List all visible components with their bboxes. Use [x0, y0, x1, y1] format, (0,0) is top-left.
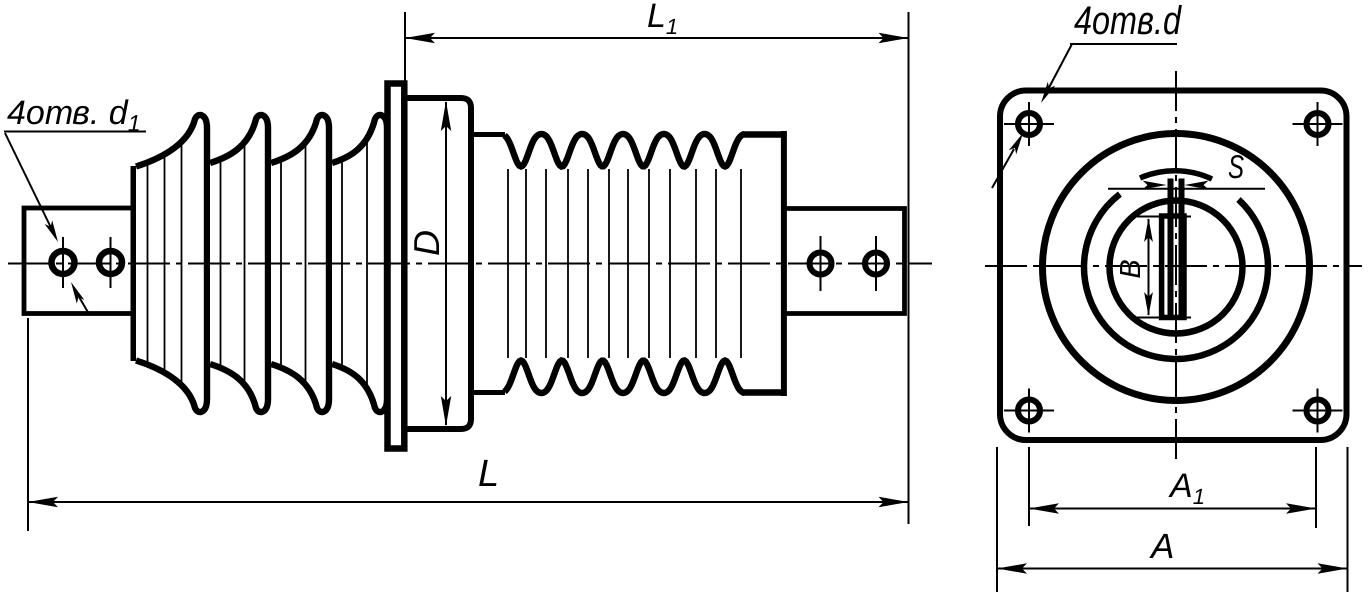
right tab hole 2 — [865, 253, 887, 275]
A1 extension left — [1028, 447, 1030, 526]
terminal slot outline — [1162, 216, 1184, 318]
arrowhead A left — [997, 563, 1027, 573]
corner hole 1 — [1018, 113, 1040, 135]
cylindrical body — [404, 98, 471, 429]
corrugated body bottom profile — [505, 361, 783, 394]
arrowhead L1 right — [879, 33, 909, 43]
flange outer circle — [1043, 134, 1310, 401]
corrugated body top profile — [505, 134, 783, 167]
neck ledge bottom — [471, 390, 505, 395]
svg-text:D: D — [406, 230, 447, 256]
left tab hole 2 — [99, 251, 122, 274]
left terminal tab — [24, 208, 133, 314]
arrowhead L1 left — [405, 33, 435, 43]
centerline left view — [8, 263, 932, 265]
arrowhead D bottom — [441, 396, 451, 426]
svg-text:S: S — [1228, 148, 1244, 185]
arrowhead d leader upper — [1041, 82, 1055, 103]
insulator shed 1 — [136, 115, 207, 412]
underline of label 4otv d — [1070, 43, 1177, 45]
right terminal tab — [786, 209, 905, 314]
A dimension line — [997, 568, 1348, 570]
middle circle (gap at top) — [1084, 194, 1268, 359]
shed shading lines — [148, 141, 368, 386]
svg-text:4отв.d: 4отв.d — [1074, 0, 1182, 43]
corrugation shading lines — [508, 169, 741, 358]
terminal blade edge right — [1179, 179, 1185, 318]
horizontal centerline right view — [985, 265, 1362, 267]
left tab hole 1 — [52, 251, 75, 274]
svg-text:B: B — [1115, 259, 1147, 278]
arrowhead d1 leader upper — [45, 220, 58, 242]
extension line flange for L1 — [404, 12, 406, 116]
insulator shed 2 — [210, 115, 268, 412]
svg-text:L: L — [478, 453, 499, 495]
A1 dimension line — [1029, 508, 1316, 510]
arrowhead B bottom — [1144, 292, 1153, 316]
corner hole 2 — [1307, 113, 1329, 135]
B extension bottom — [1137, 317, 1191, 319]
svg-text:4отв. d1: 4отв. d1 — [7, 94, 141, 136]
arrowhead L left — [28, 497, 58, 507]
corrugated body end face — [781, 131, 787, 396]
arrowhead d leader lower — [1009, 133, 1023, 154]
insulator shed 3 — [271, 115, 329, 412]
corner hole 3 — [1018, 400, 1040, 422]
S leader line — [1108, 188, 1265, 190]
arrowhead A1 right — [1286, 503, 1316, 513]
inner hole circle — [1110, 201, 1243, 334]
arrowhead d1 leader lower — [71, 282, 84, 304]
dimension line L — [28, 501, 909, 503]
S arrow left — [1143, 181, 1167, 190]
A extension right — [1347, 447, 1349, 592]
dimension line L1 — [405, 37, 909, 39]
square flange plate — [1000, 91, 1347, 441]
terminal blade edge left — [1168, 179, 1174, 318]
arrowhead A1 left — [1029, 503, 1059, 513]
vertical centerline right view — [1175, 71, 1177, 461]
S dimension arc — [1140, 171, 1212, 179]
arrowhead A right — [1318, 563, 1348, 573]
arrowhead B top — [1144, 218, 1153, 242]
B extension top — [1137, 216, 1191, 218]
D dimension line — [445, 102, 447, 425]
neck ledge top — [471, 132, 505, 137]
shed base disc edge — [131, 166, 137, 361]
mounting flange plate — [388, 84, 405, 449]
extension line left for L — [27, 318, 29, 531]
underline of label 4otv d1 — [4, 131, 146, 133]
insulator shed 4 — [332, 115, 387, 412]
A1 extension right — [1315, 447, 1317, 528]
B dimension line — [1148, 219, 1150, 315]
leader line for 4 holes d1 — [5, 133, 56, 238]
corner hole 4 — [1307, 400, 1329, 422]
leader line for 4 holes d — [1044, 44, 1072, 97]
S arrow right — [1185, 181, 1209, 190]
arrowhead D top — [441, 101, 451, 131]
svg-text:A: A — [1149, 527, 1174, 566]
extension line right for L1 and L — [908, 12, 910, 524]
arrowhead L right — [879, 497, 909, 507]
A extension left — [996, 447, 998, 592]
right tab hole 1 — [810, 253, 832, 275]
